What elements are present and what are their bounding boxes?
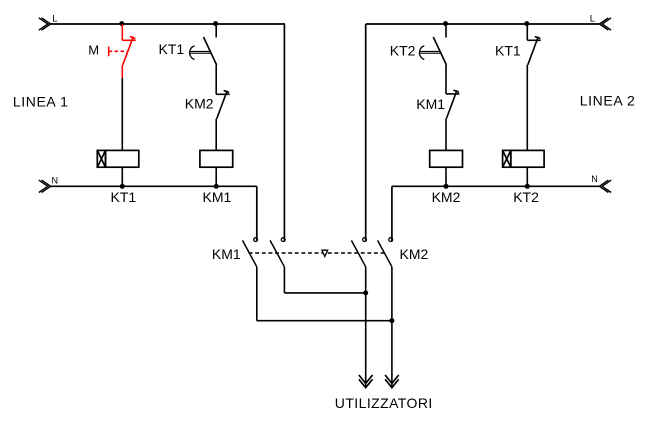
node junction N1-KT1coil: [120, 184, 125, 189]
wire N1: [51, 185, 257, 187]
feed arrow N line2: [599, 180, 611, 192]
wire KT1 coil to N1: [121, 167, 123, 186]
wire KM2 to KM1 coil: [215, 119, 217, 151]
svg-text:KM2: KM2: [432, 189, 461, 205]
wire contact A down: [256, 267, 258, 321]
wire N1 drop to contact A: [256, 186, 258, 241]
svg-text:KM1: KM1: [203, 189, 232, 205]
node junction L1-KT1: [213, 21, 218, 26]
wire contact D down to arrow: [391, 267, 393, 388]
wire contact B down: [283, 267, 285, 293]
node junction N2-KT2coil: [525, 184, 530, 189]
wire L2 top: [366, 23, 600, 25]
svg-text:KM2: KM2: [185, 96, 214, 112]
node junction N1-KM1coil: [214, 184, 219, 189]
svg-text:L: L: [52, 14, 57, 25]
contact KM1 (NC interlock): [446, 90, 459, 118]
svg-text:KM1: KM1: [416, 96, 445, 112]
contact KT1b (NC): [527, 24, 540, 65]
feed arrow L line1: [39, 18, 51, 30]
wire N2: [392, 185, 600, 187]
main contact KM2 pole D: [378, 238, 393, 267]
svg-text:N: N: [52, 175, 59, 185]
pushbutton M (red, NC): [109, 24, 136, 78]
wire KT1b to KT2 coil: [526, 65, 528, 151]
main contact KM2 pole C: [351, 238, 366, 267]
wire N2 drop to contact D: [391, 186, 393, 241]
svg-text:KM2: KM2: [400, 246, 429, 262]
svg-text:KT1: KT1: [495, 42, 521, 58]
wire contact C down to arrow: [365, 267, 367, 388]
coil KM2: [430, 150, 463, 167]
mechanical link triangle: [322, 250, 328, 256]
main contact KM1 pole A: [243, 238, 258, 267]
wire KM1 coil to N1: [215, 167, 217, 186]
delay symbol KT2: [419, 46, 440, 60]
wire KM1 to KM2 coil: [445, 118, 447, 150]
svg-text:KT2: KT2: [513, 189, 539, 205]
timer coil KT1: [97, 150, 139, 167]
wire KT2 coil to N2: [526, 167, 528, 186]
feed arrow L line2: [599, 18, 611, 30]
wire KT2 to KM1 contact: [445, 65, 447, 94]
svg-text:M: M: [88, 43, 99, 58]
wire KM2 coil to N2: [445, 167, 447, 186]
contact KT1 delayed (NO, on-delay): [204, 24, 217, 65]
coil KM1: [200, 150, 233, 167]
svg-text:UTILIZZATORI: UTILIZZATORI: [335, 395, 433, 411]
wire L1 top: [51, 23, 286, 25]
contact KM2 (NC interlock): [216, 91, 229, 119]
feed arrow N line1: [39, 180, 51, 192]
mechanical link dashed: [249, 252, 385, 254]
contact KT2 delayed (NO, on-delay): [433, 24, 446, 65]
timer coil KT2: [503, 150, 544, 167]
svg-text:L: L: [590, 14, 595, 25]
wire KT1 to KM2 contact: [215, 65, 217, 94]
wire L2 drop to contact C: [365, 24, 367, 242]
wire M to KT1 coil: [121, 78, 123, 150]
node junction A-D: [389, 318, 394, 323]
svg-text:N: N: [591, 174, 598, 184]
output arrow right: [385, 375, 399, 388]
wire L1 drop to contact B: [283, 24, 285, 242]
svg-text:LINEA 1: LINEA 1: [13, 94, 69, 110]
svg-text:KT1: KT1: [159, 41, 185, 57]
svg-text:LINEA 2: LINEA 2: [580, 93, 636, 109]
delay symbol KT1: [190, 46, 211, 60]
node junction N2-KM2coil: [444, 184, 449, 189]
wire B to C output: [284, 292, 365, 294]
node junction L2-KT2: [443, 21, 448, 26]
node junction B-C: [363, 290, 368, 295]
node junction L2-KT1b: [524, 21, 529, 26]
node junction L1-M: [119, 21, 124, 26]
output arrow left: [359, 375, 373, 388]
wire A to D output: [257, 320, 392, 322]
svg-text:KT1: KT1: [111, 189, 137, 205]
main contact KM1 pole B: [270, 238, 285, 267]
svg-text:KT2: KT2: [390, 42, 416, 58]
svg-text:KM1: KM1: [212, 246, 241, 262]
